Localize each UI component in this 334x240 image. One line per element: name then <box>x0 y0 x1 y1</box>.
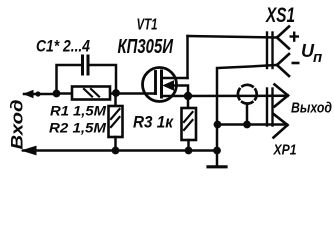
label plus <box>290 32 300 42</box>
connector XP1 bars <box>267 89 273 126</box>
resistor R3 <box>182 96 197 151</box>
wire main gate line <box>57 92 156 95</box>
node input blob <box>35 91 40 96</box>
capacitor C1 <box>83 56 89 74</box>
transistor VT1 <box>143 68 189 102</box>
svg-text:ХР1: ХР1 <box>273 142 297 159</box>
input arrow <box>24 91 33 98</box>
svg-text:VT1: VT1 <box>137 17 158 34</box>
node R3-ground junction <box>185 147 193 155</box>
connector XS1 plus contact <box>277 27 289 49</box>
ground rail arrow <box>23 146 37 154</box>
label minus <box>292 62 300 65</box>
node B junction <box>112 89 120 97</box>
wire ground rail <box>23 149 217 152</box>
wire C1 left riser <box>57 65 82 94</box>
wire C1 right riser <box>88 65 116 93</box>
wire XP1 ground branch <box>217 123 285 126</box>
wire minus supply <box>217 65 277 151</box>
wire top rail <box>188 36 278 38</box>
node A junction <box>53 90 61 98</box>
svg-text:R3 1к: R3 1к <box>133 113 174 132</box>
ground symbol <box>208 151 226 167</box>
wire source/output <box>162 95 286 98</box>
wire shield tap <box>246 104 249 125</box>
svg-text:R2 1,5М: R2 1,5М <box>49 120 106 136</box>
svg-text:КП305И: КП305И <box>118 36 174 58</box>
node minus-ground junction <box>214 121 222 129</box>
svg-text:XS1: XS1 <box>265 4 295 27</box>
wire drain riser <box>186 36 189 78</box>
connector XP1 output pin <box>275 85 289 107</box>
resistor R2 <box>109 93 123 151</box>
svg-text:R1 1,5М: R1 1,5М <box>50 103 106 119</box>
connector XS1 minus contact <box>277 54 289 76</box>
node shield junction <box>243 121 251 129</box>
svg-text:Вход: Вход <box>9 100 27 150</box>
node R2-ground junction <box>112 147 120 155</box>
wire input signal <box>24 93 56 96</box>
svg-text:Uп: Uп <box>301 41 322 66</box>
svg-text:C1* 2...4: C1* 2...4 <box>36 37 90 56</box>
node source junction <box>184 92 192 100</box>
shield screen symbol <box>238 85 257 104</box>
node ground rail junction <box>213 147 221 155</box>
connector XS1 bars <box>267 33 273 69</box>
resistor R1 <box>72 87 110 100</box>
connector XP1 ground pin <box>274 114 288 138</box>
svg-text:Выход: Выход <box>291 100 332 117</box>
